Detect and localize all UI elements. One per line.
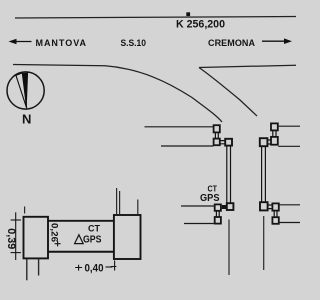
wire: road south edge curving into branch (west side)	[13, 65, 222, 123]
node: left gate bottom post square	[227, 203, 234, 210]
svg-text:CT: CT	[88, 224, 100, 234]
wire: rail line above right abutment 3	[137, 200, 139, 215]
node: left gate top post square	[225, 139, 232, 146]
node: axis tick above left abutment	[24, 207, 26, 214]
svg-text:N: N	[22, 112, 31, 127]
node: left gate top connector	[220, 141, 225, 144]
wire: right gate twin rails	[262, 146, 266, 202]
node: right gate bottom post square	[260, 202, 268, 210]
node: left gate bottom bolt	[215, 204, 221, 210]
node: bridge right abutment	[114, 215, 141, 259]
wire: branch road east side curve	[199, 68, 257, 117]
wire: fence line left of left gate bottom (upper)	[181, 205, 215, 207]
wire: left abutment left pile	[26, 259, 28, 281]
wire: fence line upper left of left gate	[145, 126, 214, 128]
node: bridge left abutment	[24, 217, 49, 259]
svg-text:GPS: GPS	[83, 233, 102, 245]
node: right gate bottom bolt	[272, 203, 278, 210]
wire: branch road east edge below right gate	[263, 216, 265, 270]
node: GPS triangle (bridge)	[75, 235, 84, 244]
node: right gate top connector	[268, 140, 271, 144]
node: left gate top bolt	[214, 125, 220, 132]
svg-text:MANTOVA: MANTOVA	[36, 38, 87, 48]
wire: left gate twin rails	[227, 146, 231, 203]
node: arrow to Cremona	[262, 40, 285, 42]
svg-text:0,39: 0,39	[5, 228, 17, 249]
node: arrow to Mantova	[15, 41, 32, 43]
svg-text:GPS: GPS	[200, 193, 220, 204]
wire: fence line right of right gate top (lower)	[278, 145, 300, 147]
node: right gate top bolt	[271, 123, 278, 130]
wire: fence line lower left of left gate	[161, 145, 214, 147]
wire: fence line right of right gate bottom (upper)	[279, 204, 300, 206]
wire: bridge deck bottom edge	[48, 251, 115, 253]
node: left gate bottom connector (filled)	[222, 205, 227, 209]
node: right gate bottom connector	[268, 205, 272, 209]
node: north compass circle	[7, 72, 44, 109]
wire: rail line above right abutment 2	[119, 191, 121, 215]
wire: left abutment right pile	[38, 259, 40, 276]
node: compass filled needle	[22, 73, 28, 109]
node: dimension 0,39 line	[15, 212, 17, 260]
svg-text:S.S.10: S.S.10	[121, 38, 147, 49]
svg-text:0,26: 0,26	[49, 223, 60, 242]
svg-text:0,40: 0,40	[85, 263, 104, 275]
node: right gate top post square	[260, 138, 268, 146]
wire: main road north edge S.S.10	[15, 17, 296, 19]
node: km milestone square K256,200	[186, 12, 190, 16]
node: dimension 0,26 tick	[55, 241, 61, 246]
svg-text:K 256,200: K 256,200	[176, 19, 225, 31]
wire: fence line right of right gate top (upper)	[278, 125, 300, 127]
svg-text:CT: CT	[208, 184, 218, 194]
wire: rail line above right abutment 1	[116, 188, 118, 215]
node: dimension 0,40	[75, 265, 82, 271]
svg-text:CREMONA: CREMONA	[208, 38, 256, 48]
wire: bridge deck top edge	[48, 220, 115, 222]
wire: branch road west edge below left gate	[228, 220, 230, 276]
wire: road south edge east of junction	[199, 65, 296, 67]
wire: fence line left of left gate bottom (lower)	[184, 223, 215, 225]
node: compass outline needle	[16, 73, 27, 108]
wire: fence line right of right gate bottom (lower)	[279, 222, 300, 224]
